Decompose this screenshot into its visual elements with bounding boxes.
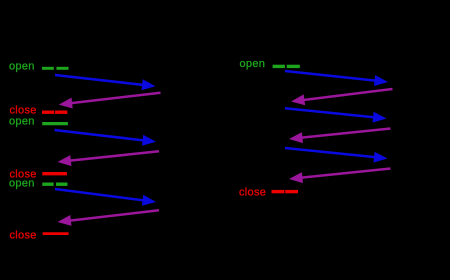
svg-text:Client: Client: [40, 43, 70, 55]
response arrow 1 (left panel, purple): [59, 93, 161, 109]
open tick 2 (left client line, green): [42, 122, 68, 125]
response arrow 3 (right panel, purple): [289, 169, 391, 184]
open tick 3 (left client line, green dashed): [42, 182, 67, 185]
close tick 3 (left client line, red): [43, 232, 69, 235]
request arrow 2 (left panel, blue): [55, 130, 157, 146]
response arrow 1 (right panel, purple): [291, 89, 393, 105]
open tick 1 (left client line, green dashed): [42, 67, 69, 70]
response arrow 3 (left panel, purple): [58, 210, 160, 226]
svg-text:open: open: [9, 177, 35, 189]
close tick 2 (left client line, red): [42, 172, 67, 175]
response arrow 2 (right panel, purple): [289, 129, 391, 144]
request arrow 3 (left panel, blue): [55, 189, 156, 206]
svg-text:close: close: [10, 104, 37, 116]
request arrow 2 (right panel, blue): [285, 108, 387, 122]
svg-text:open: open: [9, 116, 35, 128]
server timeline (right panel, black/invisible): [390, 57, 392, 248]
open tick (right client line, green dashed): [273, 65, 300, 68]
request arrow 1 (right panel, blue): [285, 71, 388, 86]
svg-text:Client: Client: [271, 43, 301, 55]
svg-text:open: open: [9, 60, 35, 72]
close tick (right client line, red): [272, 190, 299, 193]
request arrow 3 (right panel, blue): [285, 148, 388, 163]
svg-text:Persistent Connection: Persistent Connection: [279, 21, 393, 33]
request arrow 1 (left panel, blue): [55, 75, 156, 90]
svg-text:Multiple Connections: Multiple Connections: [53, 21, 161, 33]
server timeline (left panel, black/invisible): [159, 57, 161, 248]
close tick 1 (left client line, red): [42, 110, 67, 113]
svg-text:open: open: [240, 58, 266, 70]
svg-text:Server: Server: [374, 43, 408, 55]
response arrow 2 (left panel, purple): [58, 151, 160, 166]
svg-text:close: close: [10, 229, 37, 241]
svg-text:close: close: [239, 186, 266, 198]
svg-text:Server: Server: [143, 43, 177, 55]
client timeline (left panel, black/invisible): [54, 57, 56, 248]
client timeline (right panel, black/invisible): [285, 57, 287, 248]
